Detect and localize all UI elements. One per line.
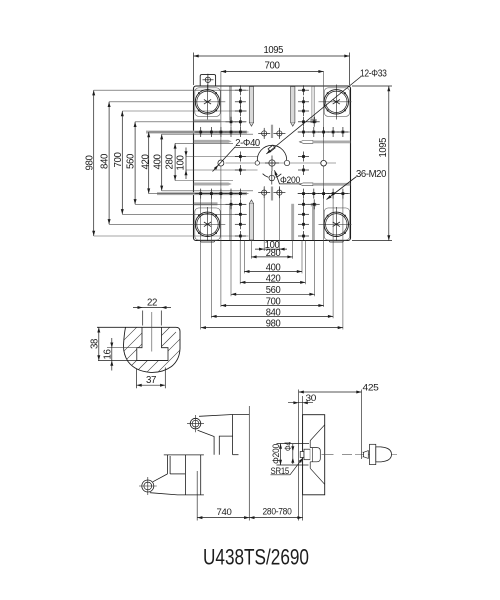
locating ring flange bbox=[310, 448, 320, 462]
svg-text:400: 400 bbox=[152, 154, 163, 170]
dimension 1095 right bbox=[352, 86, 392, 241]
corner boss outline BR bbox=[324, 208, 350, 240]
center column centerline segments bbox=[271, 125, 273, 201]
dimension 37 bbox=[137, 368, 166, 389]
gray slot vertical C140L bottom bbox=[249, 200, 253, 240]
upper bracket (injection unit mount) bbox=[198, 415, 250, 455]
left stack arrows bbox=[92, 90, 187, 236]
svg-text:700: 700 bbox=[265, 61, 281, 72]
gray slot vertical C280R top bbox=[311, 87, 317, 123]
tab hole circle bbox=[203, 74, 214, 90]
nozzle collar bbox=[370, 444, 376, 464]
svg-text:425: 425 bbox=[363, 383, 379, 393]
gray slot horizontal TL row280 bbox=[194, 119, 221, 122]
lower bracket pin circle bbox=[139, 477, 157, 495]
fixed platen block bbox=[303, 415, 325, 495]
svg-text:38: 38 bbox=[89, 338, 100, 349]
gray T-slots: vertical C280L bottom bbox=[229, 206, 232, 240]
phi200 locating ring arc bbox=[257, 145, 286, 177]
M20 crosses column C210R bbox=[298, 85, 309, 241]
svg-text:980: 980 bbox=[84, 155, 95, 171]
phi40 hole left bbox=[218, 160, 224, 166]
T-slot cut (white) bbox=[137, 327, 168, 360]
svg-text:Φ4: Φ4 bbox=[283, 442, 293, 451]
bottom bump under BL boss bbox=[201, 241, 215, 243]
svg-text:Φ200: Φ200 bbox=[271, 444, 281, 464]
small circle on ring left bbox=[255, 161, 259, 165]
svg-text:Φ200: Φ200 bbox=[280, 175, 300, 185]
leader 36-M20 bbox=[326, 169, 387, 201]
nozzle tip bbox=[363, 452, 365, 457]
gray slot horizontal BR row140 (tapered white + gray) bbox=[300, 183, 351, 186]
svg-text:36-M20: 36-M20 bbox=[356, 169, 387, 180]
svg-text:420: 420 bbox=[140, 154, 151, 170]
svg-text:SR15: SR15 bbox=[271, 466, 290, 476]
svg-text:560: 560 bbox=[126, 153, 137, 169]
phi40 hole right bbox=[321, 160, 327, 166]
tie-bar hole TL bbox=[195, 85, 219, 120]
mold face line bbox=[248, 406, 250, 521]
svg-text:740: 740 bbox=[217, 507, 232, 517]
gray slot vertical C140R top (outlined) bbox=[291, 87, 295, 127]
gray slot vertical C140L top (outlined) bbox=[249, 87, 253, 127]
svg-text:280: 280 bbox=[164, 154, 175, 170]
gray slot vertical C140R bottom bbox=[291, 204, 294, 240]
small circle on ring bottom bbox=[269, 171, 275, 185]
dimension 38 bbox=[98, 327, 100, 360]
gray T-slots: vertical C280L top bbox=[229, 87, 232, 121]
leader 2-phi40 bbox=[213, 138, 261, 172]
bottom stack arrows bbox=[201, 248, 343, 330]
sprue cone lines bbox=[310, 425, 325, 485]
leader phi200 bbox=[273, 170, 300, 185]
svg-text:980: 980 bbox=[266, 319, 281, 330]
corner boss outline TR bbox=[324, 88, 350, 117]
hatching bbox=[107, 307, 200, 391]
phi200 key slot diamond bbox=[268, 145, 275, 152]
nozzle centerline bbox=[322, 454, 398, 456]
740 extension line bbox=[196, 471, 198, 521]
svg-text:700: 700 bbox=[113, 152, 124, 168]
top-left tab ear bbox=[200, 75, 215, 86]
gray slot horizontal TL row140 (tapered) bbox=[194, 140, 232, 143]
column extension lines (bottom dims below platen) bbox=[201, 186, 343, 330]
gray slot horizontal BL row280 bbox=[194, 202, 218, 205]
gray slot vertical C280R bottom bbox=[311, 203, 317, 240]
left dimension stack bbox=[94, 90, 186, 236]
slot bottom line bbox=[98, 360, 168, 362]
svg-text:400: 400 bbox=[266, 262, 281, 273]
platen face line bbox=[302, 396, 304, 521]
nozzle tip position line (425 ext) bbox=[361, 390, 363, 460]
left stack texts bbox=[84, 152, 186, 171]
leader 12-phi33 bbox=[265, 69, 387, 156]
dimension 425 bbox=[299, 391, 362, 393]
svg-text:16: 16 bbox=[102, 349, 113, 360]
small circle on ring right bbox=[284, 160, 289, 165]
sprue bushing head bbox=[300, 452, 304, 458]
dimension 700 top bbox=[221, 71, 324, 73]
flange inner line bbox=[312, 448, 314, 462]
upper bracket pin circle bbox=[187, 415, 204, 432]
T-slot body outline bbox=[123, 327, 180, 372]
center hole cross bbox=[265, 156, 279, 172]
reference line (mold open) bbox=[298, 390, 300, 521]
svg-text:280-780: 280-780 bbox=[263, 507, 292, 517]
dimension phi200 side bbox=[277, 444, 310, 466]
svg-text:37: 37 bbox=[146, 375, 157, 386]
gray slot horizontal BL row140 (tapered) bbox=[194, 183, 232, 186]
svg-text:22: 22 bbox=[147, 297, 158, 308]
dimension phi4 bbox=[292, 444, 294, 464]
gray slot horizontal TL row210 bbox=[146, 131, 247, 134]
row extension lines (left dims into platen) bbox=[94, 90, 352, 236]
lower bracket bbox=[150, 455, 204, 495]
dimension 280-780 bbox=[249, 517, 302, 519]
long centerline column phi40 left / 700 ext bbox=[220, 72, 222, 308]
M20 crosses column C210L bbox=[235, 85, 246, 241]
long centerline column phi40 right / 700 ext bbox=[323, 72, 325, 308]
gray slot horizontal TR row140 (tapered white + gray) bbox=[300, 141, 351, 144]
bottom stack texts bbox=[265, 240, 281, 330]
corner boss outline TL bbox=[195, 88, 221, 117]
sprue bushing body bbox=[304, 449, 310, 460]
svg-text:840: 840 bbox=[266, 307, 281, 318]
slot step ext line bbox=[107, 347, 137, 349]
svg-text:U438TS/2690: U438TS/2690 bbox=[203, 545, 309, 570]
tie-bar hole BR bbox=[324, 207, 348, 241]
tie-bar hole BL bbox=[195, 207, 219, 241]
svg-text:700: 700 bbox=[266, 296, 281, 307]
svg-text:840: 840 bbox=[100, 153, 111, 169]
tie-bar hole TR bbox=[324, 85, 348, 120]
dimension 30 bbox=[288, 402, 313, 404]
platen outline bbox=[194, 86, 351, 241]
dimension 1095 top bbox=[194, 53, 350, 86]
dimension 22 bbox=[133, 308, 171, 326]
gray slot horizontal BL row210 bbox=[157, 192, 247, 195]
svg-text:1095: 1095 bbox=[264, 45, 284, 56]
label SR15 bbox=[271, 457, 305, 476]
M20 crosses row 420 bottom bbox=[195, 187, 348, 199]
svg-text:12-Φ33: 12-Φ33 bbox=[360, 69, 387, 80]
bottom dimension stack bbox=[201, 249, 343, 328]
dimension 740 bbox=[197, 517, 249, 519]
extra crosses row 280 bbox=[226, 117, 320, 210]
svg-text:560: 560 bbox=[266, 285, 281, 296]
corner boss outline BL bbox=[195, 208, 221, 240]
svg-text:30: 30 bbox=[306, 393, 317, 403]
top face line bbox=[97, 326, 176, 328]
dimension 16 bbox=[111, 338, 113, 371]
nozzle cone bbox=[364, 451, 369, 459]
svg-text:1095: 1095 bbox=[378, 137, 389, 157]
M20 crosses row 420 top bbox=[195, 127, 348, 139]
svg-text:100: 100 bbox=[175, 155, 186, 171]
svg-text:280: 280 bbox=[266, 248, 281, 259]
nozzle body bulb bbox=[376, 447, 392, 462]
slot centerline bbox=[151, 312, 153, 352]
bottom bump under BR boss bbox=[329, 241, 343, 243]
svg-text:420: 420 bbox=[266, 273, 281, 284]
